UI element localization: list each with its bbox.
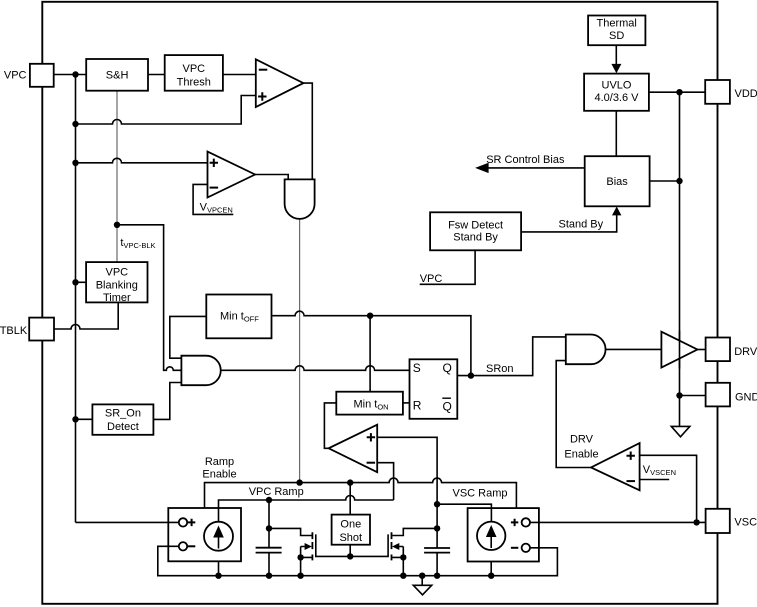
node junction C1 gate tap: [266, 525, 272, 531]
label DRV Enable: [564, 433, 598, 460]
svg-text:S: S: [413, 361, 421, 375]
node junction tVPC-BLK: [114, 222, 120, 228]
svg-text:S&H: S&H: [106, 69, 129, 81]
node junction Q output: [468, 372, 474, 378]
wire VPC pin to S&H: [54, 74, 86, 76]
pin VPC: [4, 64, 54, 87]
latch U3: [410, 359, 458, 419]
svg-text:Enable: Enable: [564, 449, 598, 461]
svg-text:SRon: SRon: [486, 363, 514, 375]
wire comparator U6 output to AND A3: [556, 361, 591, 468]
wire Bias right: [650, 180, 680, 182]
wire S&H to VPC Thresh: [148, 74, 165, 76]
wire one shot bottom: [349, 545, 351, 557]
wire VPC vertical bus: [75, 75, 77, 523]
wire AND A2 output to latch S input: [221, 366, 410, 371]
svg-text:One: One: [340, 518, 361, 530]
node junction y419: [72, 416, 78, 422]
svg-text:Shot: Shot: [339, 532, 362, 544]
wire AND A1 output down to ramp enable line (thin): [299, 219, 301, 483]
wire SR Control Bias arrow: [488, 167, 584, 169]
wire branch to AND A2 middle input: [117, 225, 181, 370]
svg-text:VPC: VPC: [182, 63, 205, 75]
svg-text:Thresh: Thresh: [177, 77, 211, 89]
wire cap C1 vertical: [268, 500, 270, 576]
wire Min tON output to latch R input: [403, 402, 410, 404]
wire VPC stub to Fsw Detect: [420, 250, 475, 284]
current source I1 VPC ramp: [168, 508, 242, 561]
op-amp U2: [208, 152, 256, 198]
buffer U5 driver: [661, 332, 697, 368]
svg-text:Blanking: Blanking: [96, 279, 138, 291]
ground symbol bottom rail: [421, 576, 423, 586]
wire VPC Thresh to comparator U1 minus: [223, 74, 256, 76]
svg-text:VPC: VPC: [105, 267, 128, 279]
node junction VDD wire: [676, 89, 682, 95]
pin TBLK: [0, 318, 54, 341]
pin DRV: [706, 338, 757, 362]
svg-text:R: R: [413, 398, 422, 412]
node rail C1: [266, 573, 272, 579]
wire ramp comparator U4 minus input: [377, 463, 393, 500]
AND gate A1: [285, 179, 315, 219]
svg-text:VSC Ramp: VSC Ramp: [453, 487, 508, 499]
wire driver output to DRV pin: [697, 349, 705, 351]
capacitor C2: [424, 548, 450, 553]
wire bias rail vertical overlay: [679, 331, 681, 369]
wire GND pin to ground: [680, 395, 706, 397]
wire VSC plus output to VSC pin: [530, 521, 706, 523]
wire TBLK pin to blanking timer: [54, 302, 118, 329]
svg-text:SR_On: SR_On: [105, 407, 141, 419]
wire S&H bottom to blanking timer (thin): [116, 91, 118, 262]
wire Thermal SD to UVLO arrow: [615, 45, 617, 64]
wire bias rail vertical: [679, 92, 681, 395]
wire Min tOFF output: [272, 311, 471, 375]
svg-text:VPC: VPC: [420, 273, 443, 285]
S&H box: [86, 59, 148, 91]
wire Min tOFF left loop to AND A2 top input: [170, 316, 207, 358]
wire VPC Ramp line: [219, 496, 394, 509]
svg-text:Q: Q: [443, 361, 452, 375]
wire I1 plus input from VPC bus: [76, 521, 179, 523]
node rail C2: [434, 573, 440, 579]
svg-text:VPC: VPC: [4, 69, 27, 81]
transistor Q1: [269, 528, 350, 575]
wire I2 top feed: [490, 508, 492, 576]
svg-text:Ramp: Ramp: [205, 456, 234, 468]
svg-text:GND: GND: [735, 391, 757, 403]
AND gate A2: [181, 356, 220, 386]
svg-text:VPC Ramp: VPC Ramp: [249, 486, 304, 498]
node junction VPC ramp / cap C1: [266, 497, 272, 503]
wire UVLO to Bias: [615, 111, 617, 156]
Thermal SD box: [588, 16, 645, 46]
Min tON box: [336, 392, 403, 415]
op-amp U1: [256, 59, 304, 107]
wire comparator U2 output to AND A1: [255, 175, 288, 180]
svg-text:VDD: VDD: [735, 88, 757, 100]
wire comparator U1 output to AND A1: [303, 83, 312, 179]
svg-text:4.0/3.6 V: 4.0/3.6 V: [594, 92, 639, 104]
node junction VSC wire: [693, 519, 699, 525]
node junction one shot bottom: [347, 553, 353, 559]
node junction on VPC bus y163: [72, 160, 78, 166]
svg-text:Thermal: Thermal: [597, 17, 637, 29]
node rail I1: [215, 573, 221, 579]
svg-text:Stand By: Stand By: [453, 232, 498, 244]
wire ramp enable line: [205, 478, 517, 508]
SR_On Detect box: [92, 404, 153, 434]
transistor Q2: [350, 528, 437, 575]
svg-text:TBLK: TBLK: [0, 325, 28, 337]
pin VDD: [705, 80, 757, 104]
svg-text:DRV: DRV: [734, 346, 757, 358]
wire Min tON left to ramp comparator U4 output: [324, 403, 336, 448]
wire bottom rail: [158, 546, 558, 575]
Fsw Detect Stand By box: [430, 212, 521, 250]
pin GND: [706, 383, 757, 407]
op-amp U6 DRV enable comparator: [591, 443, 640, 490]
node junction y282: [72, 279, 78, 285]
node junction C2 gate tap: [434, 525, 440, 531]
One Shot box: [332, 515, 370, 545]
node VPC junction: [72, 71, 78, 77]
node rail I2: [488, 573, 494, 579]
label Ramp Enable: [202, 456, 236, 481]
wire one shot top: [349, 483, 351, 515]
svg-text:Q: Q: [443, 400, 452, 414]
node junction Bias wire: [676, 178, 682, 184]
Bias box: [585, 156, 650, 206]
wire SR_On Detect output to AND A2 bottom input: [153, 383, 181, 420]
node rail Q1: [297, 573, 303, 579]
node junction VSC ramp: [434, 501, 440, 507]
wire AND A3 output to driver: [606, 348, 662, 350]
svg-text:UVLO: UVLO: [602, 79, 632, 91]
svg-text:Enable: Enable: [202, 469, 236, 481]
wire comparator U6 plus input: [640, 455, 697, 522]
svg-text:SR Control Bias: SR Control Bias: [486, 154, 565, 166]
wire comparator U1 plus input loop: [76, 96, 256, 125]
wire VPC bus to SR_On Detect: [76, 418, 93, 420]
node junction ramp enable / one shot: [347, 479, 353, 485]
ground symbol near driver: [679, 396, 681, 427]
VPC Thresh box: [165, 55, 223, 91]
svg-text:Stand By: Stand By: [559, 219, 604, 231]
AND gate A3: [566, 335, 606, 365]
svg-text:DRV: DRV: [570, 433, 594, 445]
capacitor C1: [256, 548, 282, 553]
svg-text:Bias: Bias: [606, 176, 628, 188]
svg-text:SD: SD: [609, 30, 624, 42]
svg-text:Fsw Detect: Fsw Detect: [448, 219, 503, 231]
wire ramp comparator U4 plus input: [377, 437, 437, 504]
wire comparator U6 minus stub: [640, 479, 670, 481]
node junction on VPC bus y124: [72, 121, 78, 127]
op-amp U4 ramp comparator: [329, 425, 378, 473]
wire Fsw Detect to Bias Stand By arrow: [521, 215, 617, 232]
wire VSC Ramp line: [437, 504, 491, 508]
svg-text:Timer: Timer: [103, 292, 131, 304]
V_VPCEN reference stub: [193, 184, 233, 214]
wire comparator U2 plus input: [76, 158, 208, 162]
current source I2 VSC ramp: [468, 508, 540, 561]
wire I1 top feed: [218, 508, 220, 576]
wire UVLO to VDD pin: [649, 91, 705, 93]
UVLO box: [584, 74, 649, 111]
node rail gnd: [419, 573, 425, 579]
node rail Q2: [400, 573, 406, 579]
pin VSC: [706, 509, 757, 533]
svg-text:VSC: VSC: [734, 517, 757, 529]
wire VPC bus to blanking timer: [76, 281, 87, 283]
Min tOFF box: [206, 295, 271, 339]
wire cap C2 vertical: [436, 504, 438, 576]
node junction Min tOFF branch: [367, 313, 373, 319]
wire latch Q output SRon: [457, 337, 566, 376]
wire Min tOFF branch down to Min tON: [369, 316, 371, 392]
svg-text:Detect: Detect: [107, 421, 139, 433]
node junction GND: [676, 392, 682, 398]
node junction ramp enable / A1: [296, 479, 302, 485]
VPC Blanking Timer box: [86, 262, 147, 304]
